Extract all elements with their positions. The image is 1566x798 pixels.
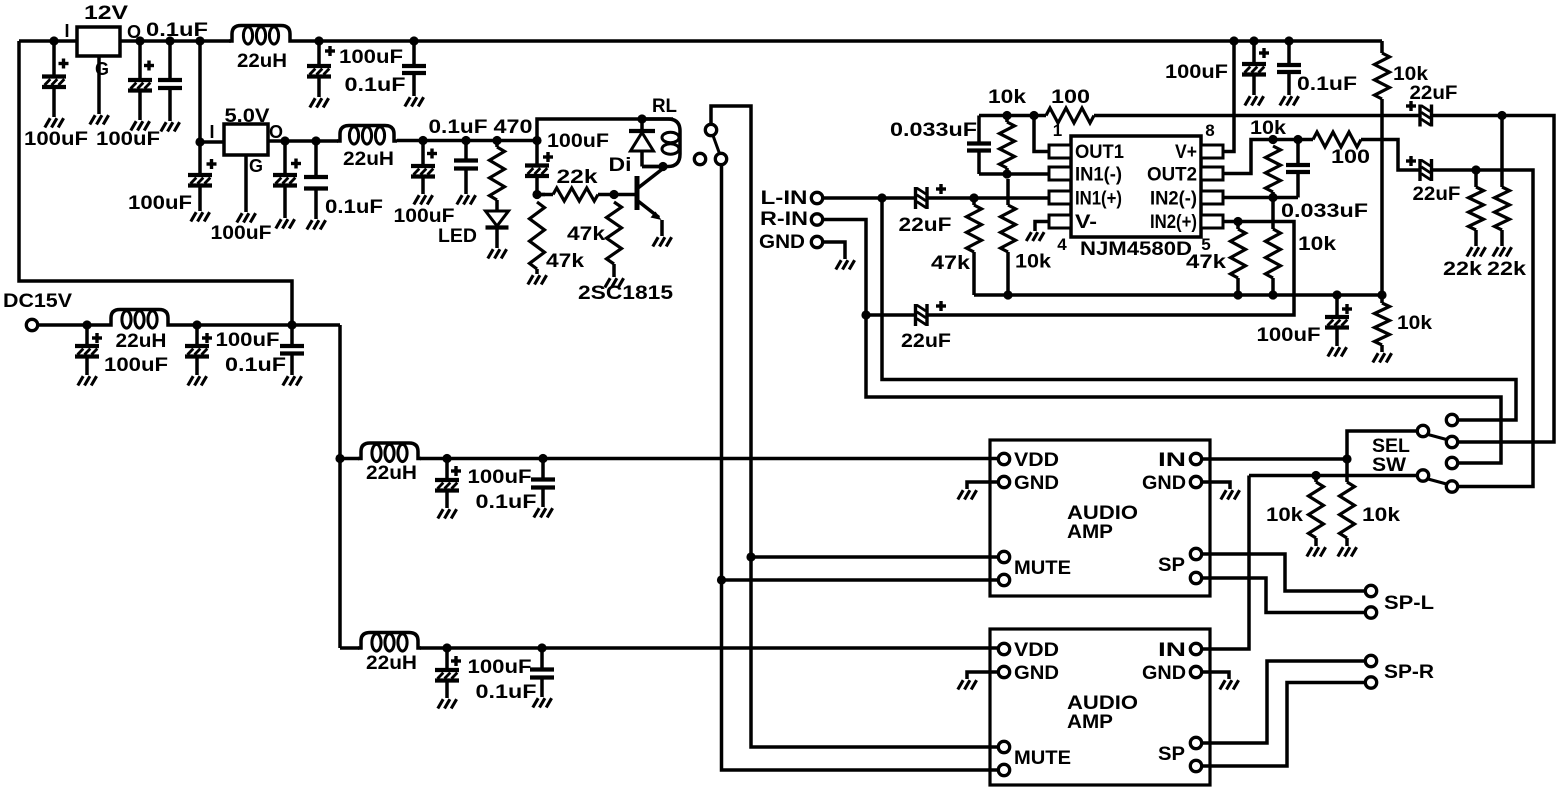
wire: 5V to relay rail xyxy=(537,119,673,141)
svg-text:VDD: VDD xyxy=(1014,449,1059,471)
wire: DC rail xyxy=(171,323,340,327)
wire: AMP1 SP1 to SP-L xyxy=(1203,554,1364,591)
switch SW throw B xyxy=(1446,481,1457,492)
svg-text:100uF: 100uF xyxy=(96,128,160,150)
connector R-IN xyxy=(811,214,822,225)
connector SP-L xyxy=(1365,607,1376,618)
label 22uH xyxy=(366,652,417,674)
junction xyxy=(1342,454,1351,463)
wire: 22k lead xyxy=(537,193,553,197)
label 100uF xyxy=(468,656,532,678)
svg-text:22uF: 22uF xyxy=(901,330,951,352)
wire: 10k leads xyxy=(1345,459,1349,482)
svg-text:RL: RL xyxy=(652,95,677,117)
junction xyxy=(49,36,58,45)
capacitor 100uF (12V reg output) xyxy=(128,41,154,120)
junction xyxy=(165,36,174,45)
wire: +15V input to 12V regulator xyxy=(19,39,77,43)
wire: AMP2 GND left xyxy=(967,672,998,679)
wire: OUT2 pin to feedback xyxy=(1223,140,1313,174)
label 0.1uF xyxy=(146,19,208,41)
label V- xyxy=(1075,211,1097,233)
svg-text:SP: SP xyxy=(1158,554,1185,576)
label NJM4580D xyxy=(1080,238,1192,260)
pin GND xyxy=(998,476,1009,487)
ground xyxy=(1338,547,1357,556)
label 100uF xyxy=(104,354,168,376)
label SEL xyxy=(1372,435,1410,457)
wire: 12V rail after inductor xyxy=(293,39,1382,43)
junction xyxy=(461,136,470,145)
wire: AMP1 IN xyxy=(1203,457,1347,461)
svg-text:100uF: 100uF xyxy=(547,130,609,152)
label OUT1 xyxy=(1075,141,1124,163)
svg-text:0.1uF: 0.1uF xyxy=(225,354,286,376)
svg-text:12V: 12V xyxy=(84,2,128,24)
ground xyxy=(1493,247,1512,256)
pin VDD xyxy=(998,453,1009,464)
label SP xyxy=(1158,743,1185,765)
wire: 22k to base xyxy=(605,193,635,197)
ground xyxy=(438,509,457,518)
junction xyxy=(135,36,144,45)
svg-text:100uF: 100uF xyxy=(468,656,532,678)
junction xyxy=(861,310,870,319)
junction xyxy=(192,320,201,329)
wire: DC15V input xyxy=(39,323,108,327)
capacitor 0.1uF (AMP1 rail) xyxy=(531,459,555,508)
capacitor 100uF (bias decouple) xyxy=(1325,295,1352,346)
label 100 xyxy=(1051,86,1090,108)
wire: OUT2 line xyxy=(1361,140,1420,171)
op-amp IC NJM4580D body xyxy=(1071,136,1201,237)
capacitor 22uF (ch1 output) xyxy=(1406,101,1432,127)
wire: AMP1 GND right xyxy=(1203,482,1230,489)
svg-text:100uF: 100uF xyxy=(468,466,532,488)
wire: AMP2 VDD rail left xyxy=(340,646,359,650)
voltage regulator 12V xyxy=(77,27,120,56)
svg-text:470: 470 xyxy=(494,116,533,138)
svg-text:22uF: 22uF xyxy=(1413,183,1461,205)
pin GND right xyxy=(1190,666,1201,677)
wire: 10k lower lead xyxy=(1271,278,1275,295)
audio amplifier block 1 xyxy=(990,440,1210,596)
junction xyxy=(287,320,296,329)
wire: OUT1 feedback rail xyxy=(979,114,1046,118)
label 10k xyxy=(1298,233,1336,255)
IC pin box left 2 xyxy=(1049,167,1071,180)
svg-text:10k: 10k xyxy=(1298,233,1336,255)
label pin4 xyxy=(1057,235,1067,254)
wire: 5V output rail xyxy=(268,139,338,143)
svg-text:2SC1815: 2SC1815 xyxy=(578,282,673,304)
svg-text:8: 8 xyxy=(1205,121,1214,140)
label AMP xyxy=(1067,711,1113,733)
label AUDIO xyxy=(1067,692,1138,714)
switch SEL blade xyxy=(1428,435,1447,440)
svg-text:0.033uF: 0.033uF xyxy=(890,119,977,141)
svg-text:100uF: 100uF xyxy=(216,329,280,351)
wire: delay node xyxy=(537,193,545,197)
label pin5 xyxy=(1201,235,1210,254)
resistor 22k (ch2 load) xyxy=(1469,187,1484,230)
ground xyxy=(405,97,424,106)
svg-text:100uF: 100uF xyxy=(104,354,168,376)
wire: divider to bias rail xyxy=(1380,99,1384,295)
wire: AMP1 VDD rail right xyxy=(420,457,998,461)
wire: AMP1 GND left xyxy=(967,482,998,489)
label SP-L xyxy=(1384,592,1434,614)
svg-text:100uF: 100uF xyxy=(394,205,455,227)
label 22uH xyxy=(116,330,167,352)
wire: AMP1 VDD rail left xyxy=(340,457,359,461)
wire: V- to ground xyxy=(1035,222,1049,232)
svg-text:OUT1: OUT1 xyxy=(1075,141,1124,163)
ground xyxy=(1373,353,1392,362)
junction xyxy=(609,190,618,199)
label 100uF xyxy=(394,205,455,227)
svg-text:100uF: 100uF xyxy=(24,128,88,150)
svg-text:0.1uF: 0.1uF xyxy=(429,116,488,138)
inductor 22uH (AMP1 rail) xyxy=(358,443,421,462)
svg-text:GND: GND xyxy=(1142,662,1186,684)
pin MUTE2 xyxy=(998,574,1009,585)
svg-text:GND: GND xyxy=(1014,472,1059,494)
switch SEL throw B xyxy=(1446,436,1457,447)
wire: bias rail xyxy=(974,293,1382,297)
resistor 10k (IN2- to bias) xyxy=(1266,229,1281,278)
ground xyxy=(1220,680,1239,689)
svg-text:22uH: 22uH xyxy=(343,148,394,170)
svg-text:10k: 10k xyxy=(1266,504,1303,526)
label G xyxy=(249,156,263,176)
wire: IN2(-) line xyxy=(1223,196,1298,200)
junction xyxy=(1332,290,1341,299)
label 22uH xyxy=(343,148,394,170)
voltage regulator 5.0V xyxy=(224,124,268,155)
wire: 0.033uF branch xyxy=(977,116,981,144)
svg-text:MUTE: MUTE xyxy=(1014,747,1071,769)
wire: 10k leads xyxy=(1271,198,1275,230)
svg-text:SW: SW xyxy=(1372,454,1407,476)
pin GND right xyxy=(1190,476,1201,487)
pin SP2 xyxy=(1190,760,1201,771)
label 22uH xyxy=(237,50,287,72)
capacitor 0.1uF (DC rail) xyxy=(280,325,304,375)
ground xyxy=(958,490,977,499)
wire: cap to IN1(+) xyxy=(927,196,1049,200)
svg-text:5.0V: 5.0V xyxy=(225,105,270,127)
resistor 100 (ch1 output) xyxy=(1046,108,1094,123)
ground xyxy=(310,98,329,107)
label 0.033uF xyxy=(890,119,977,141)
svg-text:47k: 47k xyxy=(546,250,584,272)
svg-text:SP-L: SP-L xyxy=(1384,592,1434,614)
label DC15V xyxy=(3,290,72,312)
IC pin box right 6 xyxy=(1201,191,1223,204)
wire: AMP1 SP2 to SP-L xyxy=(1203,578,1364,613)
capacitor 100uF (DC input) xyxy=(75,325,102,375)
label IN xyxy=(1158,449,1186,471)
wire: AMP2 SP2 to SP-R xyxy=(1203,683,1364,767)
inductor 22uH (5V rail) xyxy=(337,126,397,145)
svg-text:SP: SP xyxy=(1158,743,1185,765)
junction xyxy=(442,454,451,463)
label MUTE xyxy=(1014,557,1071,579)
capacitor 0.033uF (ch1 feedback) xyxy=(967,144,991,175)
pin MUTE1 xyxy=(998,551,1009,562)
connector L-IN xyxy=(811,192,822,203)
switch SW blade xyxy=(1428,479,1447,484)
label 10k xyxy=(988,86,1026,108)
pin VDD xyxy=(998,643,1009,654)
wire: 10k leads xyxy=(1005,168,1009,174)
svg-text:IN1(+): IN1(+) xyxy=(1075,188,1122,210)
svg-text:Di: Di xyxy=(609,154,632,176)
wire: regulator G lead xyxy=(97,56,101,114)
label 100uF xyxy=(96,128,160,150)
wire: 12V output rail xyxy=(120,39,231,43)
label 22k xyxy=(557,166,598,188)
inductor 22uH (DC input) xyxy=(108,310,171,329)
svg-text:V-: V- xyxy=(1075,211,1097,233)
audio amplifier block 2 xyxy=(990,629,1210,785)
capacitor 0.1uF (5V rail filter) xyxy=(454,141,478,195)
switch SW throw A xyxy=(1446,457,1457,468)
ground xyxy=(653,237,672,246)
ground xyxy=(45,118,64,127)
svg-text:10k: 10k xyxy=(988,86,1026,108)
label GND xyxy=(759,231,805,253)
svg-text:22uH: 22uH xyxy=(237,50,287,72)
label SP xyxy=(1158,554,1185,576)
IC pin box right 8 xyxy=(1201,145,1223,158)
svg-text:10k: 10k xyxy=(1015,251,1051,273)
resistor 10k (ch2 feedback) xyxy=(1266,146,1281,192)
label Di xyxy=(609,154,632,176)
IC pin box left 4 xyxy=(1049,215,1071,228)
resistor 10k (Vref divider upper) xyxy=(1375,53,1390,99)
junction xyxy=(1268,193,1277,202)
wire: 22k lead xyxy=(1474,170,1478,187)
svg-text:47k: 47k xyxy=(931,252,970,274)
wire: 10k lead xyxy=(1314,476,1318,483)
svg-text:22k: 22k xyxy=(1443,258,1482,280)
svg-text:10k: 10k xyxy=(1397,312,1432,334)
svg-text:22uF: 22uF xyxy=(1410,82,1458,104)
ground xyxy=(276,219,295,228)
ground xyxy=(78,376,97,385)
junction xyxy=(1293,135,1302,144)
wire: collector node xyxy=(642,165,663,169)
label 100 xyxy=(1331,146,1370,168)
svg-text:22uH: 22uH xyxy=(366,652,417,674)
label O xyxy=(269,122,283,142)
junction xyxy=(538,454,547,463)
pin SP1 xyxy=(1190,548,1201,559)
svg-text:LED: LED xyxy=(438,225,477,247)
capacitor 100uF (IC supply) xyxy=(1242,41,1269,95)
svg-text:100uF: 100uF xyxy=(211,222,272,244)
junction xyxy=(1003,290,1012,299)
wire: 47k to ground xyxy=(612,264,616,277)
svg-text:IN: IN xyxy=(1158,449,1186,471)
resistor 10k (amp2 input) xyxy=(1309,482,1324,538)
pin MUTE2 xyxy=(998,764,1009,775)
junction xyxy=(1377,290,1386,299)
wire: SEL pole line xyxy=(1347,431,1417,459)
label 100uF xyxy=(547,130,609,152)
svg-text:100uF: 100uF xyxy=(1165,61,1228,83)
junction xyxy=(1233,290,1242,299)
wire: 10k to ground xyxy=(1314,538,1318,546)
svg-text:SP-R: SP-R xyxy=(1384,661,1434,683)
junction xyxy=(532,190,541,199)
ground xyxy=(534,508,553,517)
junction xyxy=(418,136,427,145)
junction xyxy=(409,36,418,45)
label G xyxy=(95,59,109,79)
label L-IN xyxy=(761,187,808,209)
ground xyxy=(605,278,624,287)
label 0.1uF xyxy=(1297,73,1357,95)
label pin1 xyxy=(1053,121,1062,140)
label 100uF xyxy=(339,46,403,68)
svg-text:I: I xyxy=(209,122,214,142)
junction xyxy=(717,575,726,584)
junction xyxy=(1233,217,1242,226)
label SW xyxy=(1372,454,1407,476)
svg-text:0.033uF: 0.033uF xyxy=(1281,200,1368,222)
capacitor 100uF (5V rail filter) xyxy=(411,141,437,195)
wire: 5V rail after inductor xyxy=(397,139,537,143)
label 0.1uF xyxy=(345,74,406,96)
svg-text:IN2(+): IN2(+) xyxy=(1150,211,1197,233)
capacitor 100uF (mute delay) xyxy=(525,141,553,195)
capacitor 100uF (12V reg input) xyxy=(42,41,69,117)
junction xyxy=(1284,36,1293,45)
svg-text:10k: 10k xyxy=(1250,117,1286,139)
svg-text:22uH: 22uH xyxy=(116,330,167,352)
wire: IN1(-) line xyxy=(979,172,1049,176)
svg-text:22k: 22k xyxy=(557,166,598,188)
wire: 5V reg G lead xyxy=(244,155,248,212)
label 100uF xyxy=(211,222,272,244)
svg-text:22uH: 22uH xyxy=(366,462,417,484)
wire: DC rail down to amp rails xyxy=(338,325,342,648)
junction xyxy=(82,320,91,329)
label 10k xyxy=(1362,504,1400,526)
svg-text:G: G xyxy=(95,59,109,79)
junction xyxy=(877,193,886,202)
label GND xyxy=(1014,472,1059,494)
IC pin box left 3 xyxy=(1049,191,1071,204)
label 2SC1815 xyxy=(578,282,673,304)
capacitor 100uF (5V reg output) xyxy=(273,141,301,218)
label IN xyxy=(1158,639,1186,661)
label 10k xyxy=(1250,117,1286,139)
svg-text:47k: 47k xyxy=(1186,251,1226,273)
label pin8 xyxy=(1205,121,1214,140)
IC pin box right 5 xyxy=(1201,215,1223,228)
label 470 xyxy=(494,116,533,138)
label 22k xyxy=(1487,258,1526,280)
junction xyxy=(1497,111,1506,120)
svg-text:10k: 10k xyxy=(1362,504,1400,526)
svg-text:100: 100 xyxy=(1051,86,1090,108)
label 0.1uF xyxy=(476,681,537,703)
label 22uF xyxy=(901,330,951,352)
label I xyxy=(64,21,69,41)
label 10k xyxy=(1015,251,1051,273)
wire: L-IN to coupling cap xyxy=(823,196,915,200)
wire: 22k to ground xyxy=(1474,230,1478,246)
relay contact (common) xyxy=(715,153,726,164)
resistor 47k (delay) xyxy=(530,202,545,269)
inductor 22uH (AMP2 rail) xyxy=(358,633,421,652)
capacitor 0.1uF (AMP2 rail) xyxy=(530,648,554,697)
wire: OUT2 after cap xyxy=(1432,170,1534,487)
junction xyxy=(311,136,320,145)
label 47k xyxy=(1186,251,1226,273)
junction xyxy=(1311,471,1320,480)
wire: mute bus B to AMP1 MUTE xyxy=(722,578,999,582)
capacitor 22uF (ch2 output) xyxy=(1406,156,1432,181)
ground xyxy=(533,698,552,707)
resistor 470 (LED) xyxy=(490,147,505,200)
ground xyxy=(191,212,210,221)
capacitor 100uF (12V rail filter) xyxy=(307,41,335,97)
wire: AMP2 IN from SW xyxy=(1203,476,1249,650)
junction xyxy=(1249,36,1258,45)
label 47k xyxy=(931,252,970,274)
junction xyxy=(195,36,204,45)
wire: 10k to ground xyxy=(1380,345,1384,352)
diode Di (flyback) xyxy=(629,119,655,167)
capacitor 0.033uF (ch2 feedback) xyxy=(1286,165,1310,198)
wire: AMP2 GND right xyxy=(1203,672,1229,679)
svg-text:I: I xyxy=(64,21,69,41)
capacitor 100uF (AMP1 rail) xyxy=(435,459,461,509)
label 0.1uF xyxy=(225,354,286,376)
wire: AMP2 SP1 to SP-R xyxy=(1203,661,1364,743)
ground xyxy=(958,680,977,689)
label 12V xyxy=(84,2,128,24)
svg-text:G: G xyxy=(249,156,263,176)
switch SW pole xyxy=(1417,470,1428,481)
svg-text:GND: GND xyxy=(1014,662,1059,684)
connector SP-R xyxy=(1365,655,1376,666)
relay contact (NC) xyxy=(694,153,705,164)
wire: relay common to mute bus B xyxy=(722,165,999,770)
wire: 22k to ground xyxy=(1500,230,1504,246)
svg-text:100: 100 xyxy=(1331,146,1370,168)
junction xyxy=(537,643,546,652)
IC pin box right 7 xyxy=(1201,167,1223,180)
relay contact xyxy=(705,124,716,135)
svg-text:100uF: 100uF xyxy=(339,46,403,68)
ground xyxy=(528,275,547,284)
ground xyxy=(237,213,256,222)
capacitor 0.1uF (12V reg output) xyxy=(158,41,182,121)
resistor 22k (base) xyxy=(553,188,598,201)
label AUDIO xyxy=(1067,502,1138,524)
IC pin box left 1 xyxy=(1049,145,1071,158)
svg-text:22uF: 22uF xyxy=(899,214,952,236)
junction xyxy=(314,36,323,45)
ground xyxy=(488,249,507,258)
resistor 10k (IN1- to bias) xyxy=(1001,205,1016,252)
